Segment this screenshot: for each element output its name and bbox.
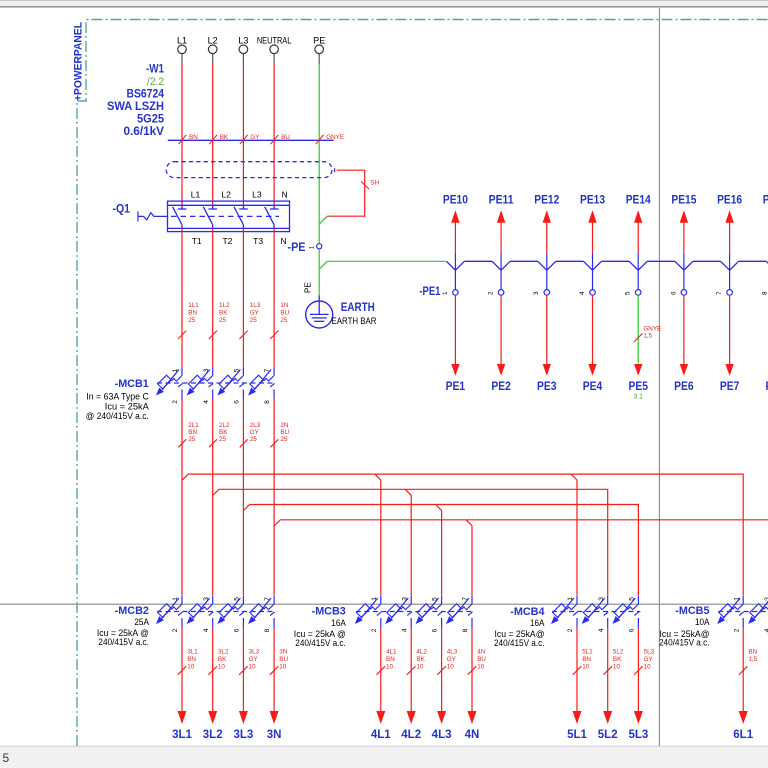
wire 1L3 Q1 to MCB1 <box>239 228 260 367</box>
svg-text:2L2: 2L2 <box>219 422 230 429</box>
svg-text:2: 2 <box>488 291 495 295</box>
svg-text:PE13: PE13 <box>580 193 605 207</box>
svg-text:L3: L3 <box>238 36 248 46</box>
svg-text:BK: BK <box>416 656 425 663</box>
svg-text:Icu = 25kA: Icu = 25kA <box>105 402 150 412</box>
svg-text:BK: BK <box>613 656 622 663</box>
breaker MCB5 <box>659 596 768 648</box>
svg-text:+POWERPANEL: +POWERPANEL <box>73 22 85 101</box>
breaker MCB4 <box>494 596 640 648</box>
bus N <box>274 520 768 596</box>
screen wire SH <box>319 170 379 224</box>
svg-text:-MCB4: -MCB4 <box>510 606 544 618</box>
svg-text:1: 1 <box>371 597 378 601</box>
PE node -PE <box>288 240 322 254</box>
svg-text:-MCB1: -MCB1 <box>115 378 149 390</box>
svg-text:BU: BU <box>280 429 289 436</box>
svg-text:BN: BN <box>386 656 395 663</box>
svg-text:In = 63A Type C: In = 63A Type C <box>86 392 149 402</box>
svg-text:240/415V a.c.: 240/415V a.c. <box>98 637 149 647</box>
svg-text:10: 10 <box>249 664 257 671</box>
bus L3 <box>243 505 638 596</box>
PE tap node 6 <box>670 193 696 394</box>
svg-text:BU: BU <box>477 656 486 663</box>
svg-text:5: 5 <box>629 597 636 601</box>
svg-text:N: N <box>282 190 288 200</box>
feeder 4L1 <box>371 627 397 741</box>
svg-text:T2: T2 <box>222 236 232 246</box>
svg-text:6: 6 <box>670 291 677 295</box>
svg-text:3: 3 <box>598 597 605 601</box>
svg-text:-MCB5: -MCB5 <box>675 605 709 617</box>
svg-text:3L3: 3L3 <box>233 729 253 741</box>
svg-text:1: 1 <box>567 597 574 601</box>
PE bus <box>446 261 768 270</box>
svg-text:3: 3 <box>203 368 210 372</box>
feeder 6L1 <box>733 627 757 741</box>
svg-text:2L1: 2L1 <box>188 422 199 429</box>
svg-text:5L2: 5L2 <box>598 729 618 741</box>
wire PE node to earth bar <box>304 249 328 296</box>
application toolbar strip <box>0 0 768 6</box>
svg-text:T3: T3 <box>253 236 263 246</box>
svg-text:PE3: PE3 <box>537 379 557 393</box>
svg-text:N: N <box>281 236 287 246</box>
feeder 3L3 <box>233 627 259 741</box>
svg-text:8: 8 <box>264 628 271 632</box>
svg-text:4L1: 4L1 <box>386 649 397 656</box>
svg-text:BN: BN <box>189 134 198 141</box>
wire L1 terminal to Q1 <box>181 64 183 205</box>
svg-text:PE14: PE14 <box>626 193 651 207</box>
wire 2N MCB1 down to MCB2 <box>270 399 289 596</box>
svg-text:1,5: 1,5 <box>748 656 757 663</box>
svg-text:T1: T1 <box>192 236 202 246</box>
wire L2 terminal to Q1 <box>212 64 214 205</box>
svg-text:4: 4 <box>764 628 768 632</box>
svg-text:PE6: PE6 <box>674 379 694 393</box>
svg-text:25A: 25A <box>134 617 149 627</box>
svg-text:7: 7 <box>264 597 271 601</box>
svg-text:BN: BN <box>188 310 197 317</box>
svg-text:3N: 3N <box>279 649 288 656</box>
svg-text:SH: SH <box>370 179 379 186</box>
wire 2L3 MCB1 down to MCB2 <box>240 399 261 596</box>
feeder 3L1 <box>172 627 198 741</box>
svg-text:GNYE: GNYE <box>326 134 344 141</box>
svg-text:BK: BK <box>219 310 228 317</box>
svg-text:240/415V a.c.: 240/415V a.c. <box>659 637 710 647</box>
feeder 5L2 <box>598 627 624 741</box>
cable core mark BU <box>271 134 291 144</box>
feeder 5L3 <box>628 627 654 741</box>
svg-text:6: 6 <box>234 400 241 404</box>
breaker MCB1 <box>86 367 276 421</box>
svg-text:PE7: PE7 <box>720 379 740 393</box>
svg-text:10: 10 <box>187 664 195 671</box>
svg-text:4: 4 <box>203 628 210 632</box>
svg-text:10: 10 <box>644 664 652 671</box>
svg-text:BK: BK <box>219 429 228 436</box>
PE tap node 5 <box>625 193 662 401</box>
svg-text:L3: L3 <box>252 190 262 200</box>
svg-text:1L3: 1L3 <box>250 302 261 309</box>
cable core mark GY <box>240 134 260 144</box>
cable core mark BK <box>209 134 229 144</box>
svg-text:7: 7 <box>716 291 723 295</box>
svg-text:1,5: 1,5 <box>643 332 652 339</box>
svg-text:L2: L2 <box>208 36 218 46</box>
svg-text:10: 10 <box>582 664 590 671</box>
PE tap node 2 <box>488 193 514 394</box>
svg-text:L2: L2 <box>221 190 231 200</box>
svg-text:4L2: 4L2 <box>416 649 427 656</box>
cable W1 label block <box>107 62 164 139</box>
svg-text:PE12: PE12 <box>534 193 559 207</box>
svg-text:25: 25 <box>280 317 288 324</box>
terminal L2 <box>208 36 218 65</box>
svg-text:-PE1: -PE1 <box>419 286 440 298</box>
svg-text:2: 2 <box>733 628 740 632</box>
svg-text:6: 6 <box>629 628 636 632</box>
svg-text:BU: BU <box>281 134 290 141</box>
svg-text:PE10: PE10 <box>443 193 468 207</box>
svg-text:7: 7 <box>264 368 271 372</box>
svg-text:5L3: 5L3 <box>628 729 648 741</box>
svg-text:PE2: PE2 <box>491 379 511 393</box>
wire L3 terminal to Q1 <box>242 64 244 205</box>
svg-text:PE15: PE15 <box>671 193 696 207</box>
svg-text:3L1: 3L1 <box>187 649 198 656</box>
svg-text:8: 8 <box>462 628 469 632</box>
svg-text:25: 25 <box>188 317 196 324</box>
svg-text:4L3: 4L3 <box>432 729 452 741</box>
PE tap node 7 <box>716 193 742 394</box>
wire PE to bus <box>327 260 446 262</box>
svg-text:BN: BN <box>582 656 591 663</box>
svg-text:PE4: PE4 <box>583 379 603 393</box>
cable W1 line <box>168 139 334 141</box>
svg-text:BU: BU <box>280 310 289 317</box>
svg-text:4: 4 <box>579 291 586 295</box>
bus L2 <box>213 489 608 595</box>
svg-text:PE11: PE11 <box>489 193 514 207</box>
svg-text:4: 4 <box>203 400 210 404</box>
wire 2L1 MCB1 down to MCB2 <box>178 399 199 596</box>
svg-text:10: 10 <box>477 664 485 671</box>
svg-text:EARTH BAR: EARTH BAR <box>332 316 377 327</box>
status bar <box>0 745 768 747</box>
svg-text:240/415V a.c.: 240/415V a.c. <box>494 638 545 648</box>
earth bar EARTH <box>306 296 377 329</box>
terminal NEUTRAL <box>257 36 292 65</box>
bus L1 <box>182 474 743 595</box>
svg-text:L1: L1 <box>177 36 187 46</box>
svg-text:7: 7 <box>462 597 469 601</box>
svg-text:25: 25 <box>280 436 288 443</box>
svg-text:5L2: 5L2 <box>613 649 624 656</box>
cable screen ellipse <box>166 162 332 178</box>
svg-text:NEUTRAL: NEUTRAL <box>257 36 292 46</box>
svg-text:3: 3 <box>764 597 768 601</box>
svg-text:PE1: PE1 <box>446 379 466 393</box>
svg-text:-MCB2: -MCB2 <box>115 605 149 617</box>
svg-text:4L3: 4L3 <box>447 649 458 656</box>
svg-text:1: 1 <box>733 597 740 601</box>
svg-text:10: 10 <box>279 664 287 671</box>
svg-text:0.6/1kV: 0.6/1kV <box>124 124 165 138</box>
svg-text:5L1: 5L1 <box>582 649 593 656</box>
svg-text:-W1: -W1 <box>146 62 164 76</box>
svg-text:4N: 4N <box>465 729 480 741</box>
svg-text:2L3: 2L3 <box>250 422 261 429</box>
feeder 3N <box>267 627 289 741</box>
feeder 5L1 <box>567 627 593 741</box>
svg-text:3L2: 3L2 <box>203 729 223 741</box>
svg-text:5: 5 <box>3 751 10 765</box>
svg-text:6: 6 <box>432 628 439 632</box>
svg-text:2: 2 <box>371 628 378 632</box>
breaker MCB2 <box>97 596 276 647</box>
svg-text:3L2: 3L2 <box>218 649 229 656</box>
svg-text:1: 1 <box>442 291 449 295</box>
sheet boundary lines <box>658 8 660 746</box>
svg-text:2: 2 <box>567 628 574 632</box>
main switch Q1 <box>113 190 290 247</box>
svg-text:EARTH: EARTH <box>341 300 375 314</box>
svg-text:GY: GY <box>249 656 259 663</box>
svg-text:PE: PE <box>313 36 325 46</box>
svg-text:10: 10 <box>218 664 226 671</box>
svg-text:10: 10 <box>416 664 424 671</box>
wire 2L2 MCB1 down to MCB2 <box>209 399 230 596</box>
wire PE terminal down <box>318 64 320 243</box>
svg-text:3: 3 <box>533 291 540 295</box>
terminal PE <box>313 36 325 65</box>
svg-text:2N: 2N <box>280 422 289 429</box>
svg-text:8: 8 <box>762 291 768 295</box>
wire 1N Q1 to MCB1 <box>270 228 289 367</box>
svg-text:2: 2 <box>172 400 179 404</box>
svg-text:2: 2 <box>172 628 179 632</box>
svg-text:25: 25 <box>250 436 258 443</box>
feeder 4L3 <box>432 627 458 741</box>
svg-text:-Q1: -Q1 <box>113 202 131 216</box>
svg-text:GY: GY <box>250 429 260 436</box>
svg-text:BU: BU <box>279 656 288 663</box>
svg-text:4L2: 4L2 <box>401 729 421 741</box>
svg-text:4N: 4N <box>477 649 486 656</box>
svg-text:GY: GY <box>447 656 457 663</box>
svg-text:1: 1 <box>172 597 179 601</box>
terminal L3 <box>238 36 248 65</box>
svg-text:25: 25 <box>188 436 196 443</box>
svg-text:3N: 3N <box>267 729 282 741</box>
PE tap node 1 <box>442 193 468 394</box>
svg-text:GNYE: GNYE <box>643 325 661 332</box>
svg-text:16A: 16A <box>530 618 545 628</box>
svg-text:PE5: PE5 <box>628 379 648 393</box>
svg-text:BN: BN <box>748 649 757 656</box>
svg-text:-MCB3: -MCB3 <box>312 606 346 618</box>
svg-text:@ 240/415V a.c.: @ 240/415V a.c. <box>86 411 149 421</box>
svg-text:GY: GY <box>250 134 260 141</box>
svg-text:8: 8 <box>264 400 271 404</box>
svg-text:3.1: 3.1 <box>633 394 643 401</box>
PE tap node 4 <box>579 193 605 394</box>
svg-text:6: 6 <box>234 628 241 632</box>
svg-text:3L1: 3L1 <box>172 729 192 741</box>
svg-text:10: 10 <box>613 664 621 671</box>
svg-text:10: 10 <box>447 664 455 671</box>
breaker MCB3 <box>294 596 474 648</box>
svg-text:PE16: PE16 <box>717 193 742 207</box>
svg-text:BK: BK <box>220 134 229 141</box>
feeder 4L2 <box>401 627 427 741</box>
wire NEUTRAL terminal to Q1 <box>273 64 275 205</box>
svg-text:5: 5 <box>625 291 632 295</box>
svg-text:BN: BN <box>188 429 197 436</box>
svg-text:BK: BK <box>218 656 227 663</box>
svg-text:1L1: 1L1 <box>188 302 199 309</box>
svg-text:4: 4 <box>598 628 605 632</box>
svg-text:10A: 10A <box>695 617 710 627</box>
svg-text:1: 1 <box>172 368 179 372</box>
svg-text:PE17: PE17 <box>763 193 768 207</box>
terminal L1 <box>177 36 187 65</box>
svg-text:-PE: -PE <box>288 240 306 254</box>
cable core mark GNYE <box>316 134 344 144</box>
svg-text:L1: L1 <box>191 190 201 200</box>
svg-text:3L3: 3L3 <box>249 649 260 656</box>
svg-text:25: 25 <box>219 317 227 324</box>
svg-text:25: 25 <box>250 317 258 324</box>
PE tap node 8 <box>762 193 768 394</box>
svg-text:16A: 16A <box>331 618 346 628</box>
svg-text:3: 3 <box>203 597 210 601</box>
svg-text:5L1: 5L1 <box>567 729 587 741</box>
svg-text:10: 10 <box>386 664 394 671</box>
feeder 3L2 <box>203 627 229 741</box>
svg-text:3: 3 <box>401 597 408 601</box>
feeder 4N <box>465 627 487 741</box>
svg-text:1N: 1N <box>280 302 289 309</box>
PE tap node 3 <box>533 193 559 394</box>
svg-text:5: 5 <box>234 368 241 372</box>
svg-text:GY: GY <box>250 310 260 317</box>
svg-text:240/415V a.c.: 240/415V a.c. <box>295 638 346 648</box>
svg-text:PE: PE <box>304 282 313 293</box>
cable core mark BN <box>179 134 199 144</box>
svg-text:6L1: 6L1 <box>733 729 753 741</box>
svg-text:5L3: 5L3 <box>644 649 655 656</box>
svg-text:5: 5 <box>234 597 241 601</box>
svg-text:GY: GY <box>644 656 654 663</box>
wire 1L1 Q1 to MCB1 <box>178 228 199 367</box>
wire 1L2 Q1 to MCB1 <box>209 228 230 367</box>
svg-text:4L1: 4L1 <box>371 729 391 741</box>
svg-text:BN: BN <box>187 656 196 663</box>
svg-text:25: 25 <box>219 436 227 443</box>
svg-text:4: 4 <box>401 628 408 632</box>
svg-text:1L2: 1L2 <box>219 302 230 309</box>
svg-text:5: 5 <box>432 597 439 601</box>
